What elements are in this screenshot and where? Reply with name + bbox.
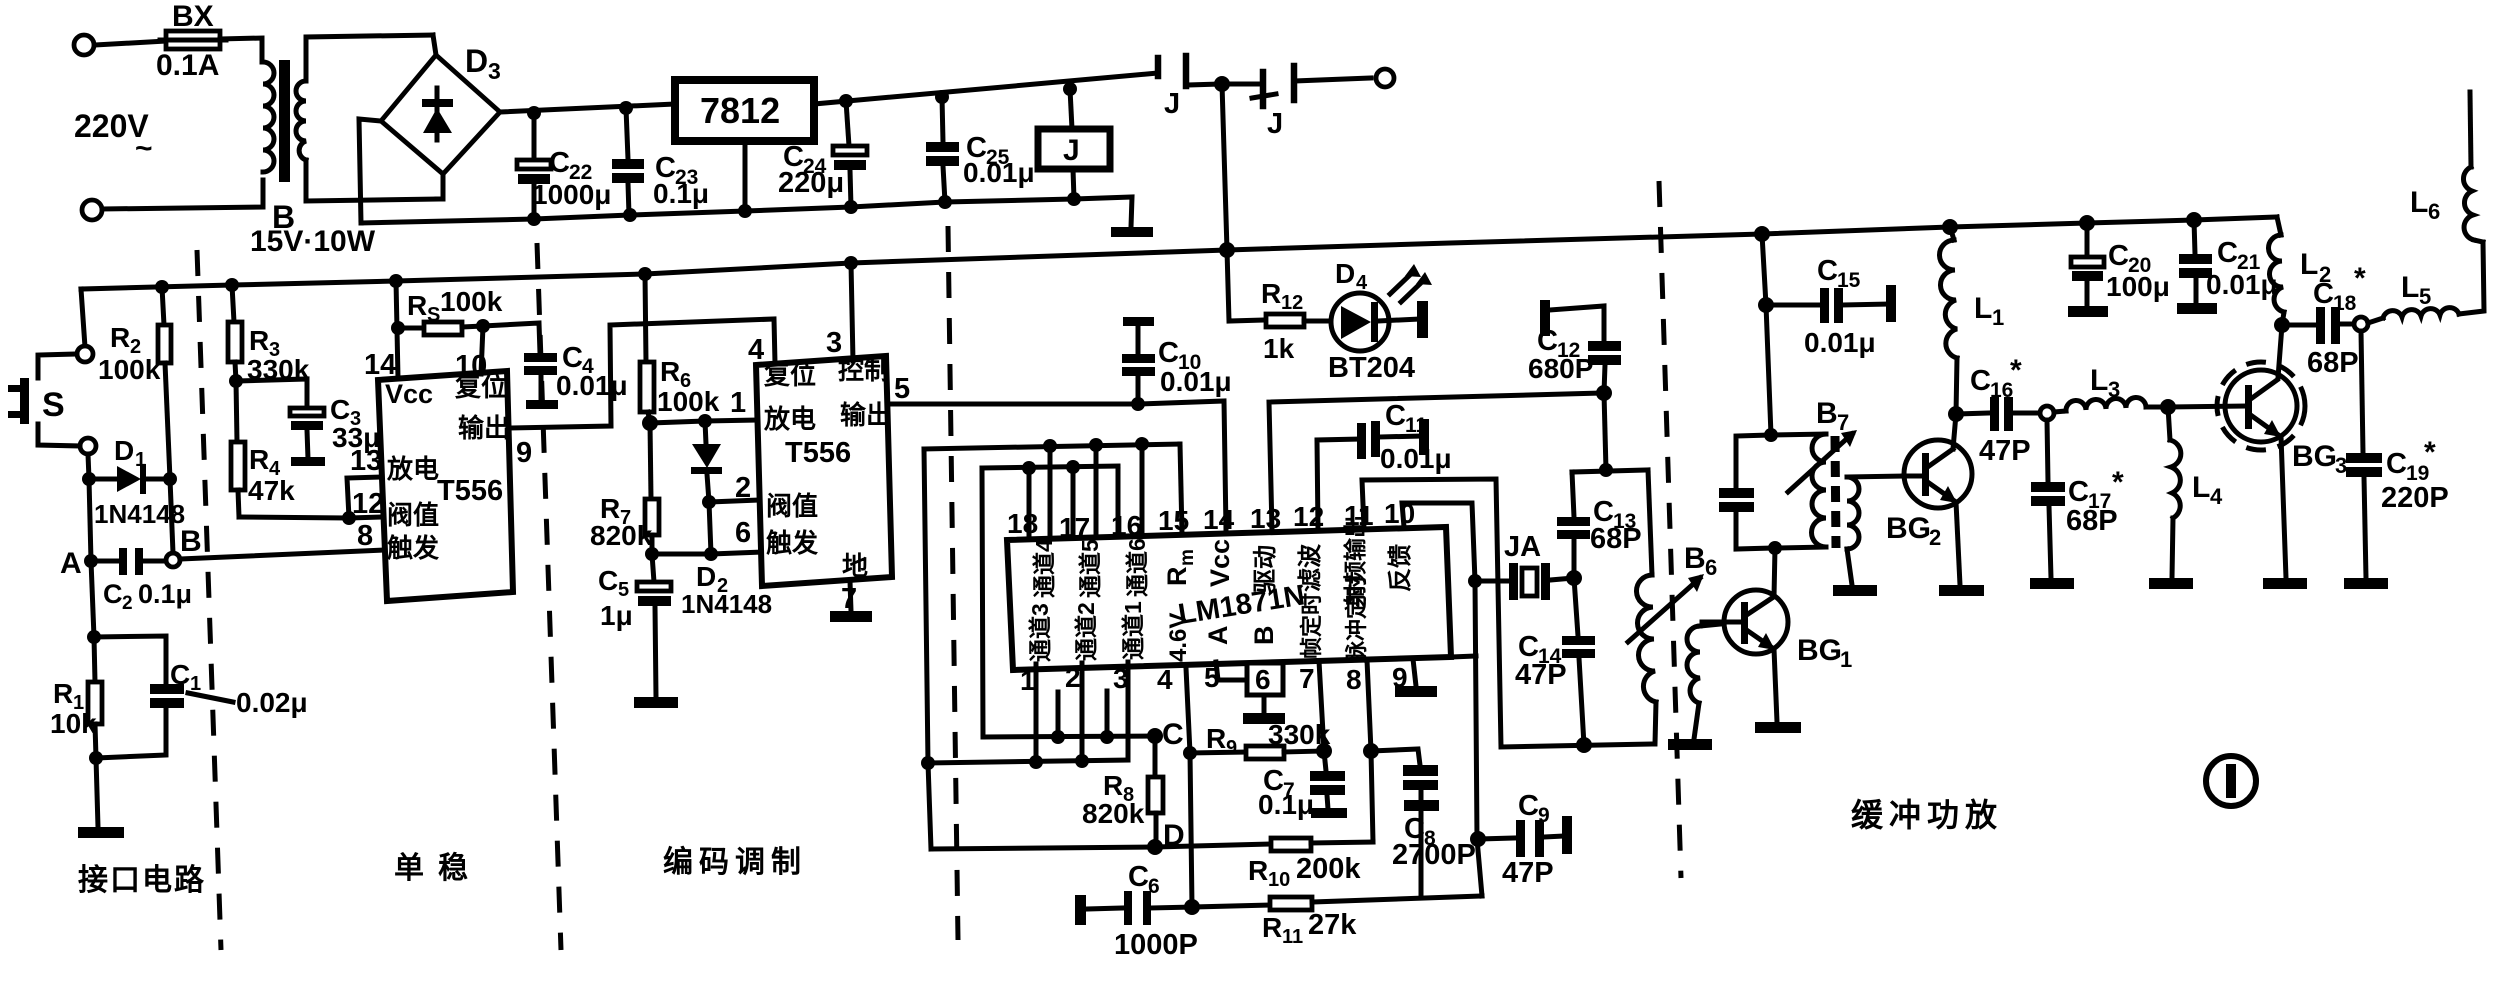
node B circle [166,553,180,567]
svg-text:3: 3 [2108,377,2120,402]
junction: L2/C18/BG3 [2274,317,2290,333]
svg-text:200k: 200k [1296,853,1361,885]
svg-text:1000P: 1000P [1114,929,1198,961]
svg-text:9: 9 [1226,737,1237,759]
capacitor C18 68P [2282,262,2366,379]
svg-text:反馈: 反馈 [1387,544,1414,592]
svg-text:9: 9 [1538,804,1550,827]
svg-text:R: R [249,444,269,475]
svg-text:14: 14 [1203,504,1235,535]
junction: R1/C1 top [87,630,101,644]
svg-text:1: 1 [1992,305,2004,330]
svg-text:5: 5 [2419,284,2431,309]
svg-text:T556: T556 [785,437,851,469]
svg-text:B: B [180,525,202,558]
crystal JA [1475,531,1574,600]
junction: D2 cathode / pin 2 [702,495,716,509]
svg-text:11: 11 [1282,926,1303,948]
pin 4 stub down [1186,668,1192,907]
transformer B core [279,60,290,182]
svg-text:C: C [1817,255,1838,287]
svg-text:T556: T556 [437,475,503,507]
capacitor C17 68P [2031,420,2124,578]
transformer B7 core [1835,436,1836,548]
svg-text:6: 6 [735,517,751,549]
svg-text:触发: 触发 [766,528,818,558]
junction: rail at C20 [2079,215,2095,231]
wire: switch node down to rail and R12 [1222,84,1266,321]
junction: switch node top [1214,76,1230,92]
wire: BG2 emitter to ground [1956,502,1960,585]
svg-text:单稳: 单稳 [394,852,482,885]
transformer B7 primary winding [1771,434,1826,548]
svg-text:Vcc: Vcc [1205,539,1235,587]
resistor R11 27k [1192,896,1482,948]
wire: chip bottom right corner extension [1451,656,1476,657]
wire: to threshold pin 2 [709,500,760,502]
transformer B7 secondary winding [1847,476,1903,585]
transistor BG3 [2217,362,2347,478]
junction at C24 [839,94,853,108]
wire: R4 bottom to T556 no.1 pins 12/13 [239,517,381,518]
svg-text:C: C [2108,240,2129,272]
wire: power section ground rail [361,197,1132,227]
junction: D1 cathode / R2 bottom [163,472,177,486]
svg-text:0.1μ: 0.1μ [138,579,192,609]
svg-text:D: D [1335,258,1355,289]
svg-text:C: C [598,565,618,596]
svg-text:2: 2 [122,593,133,614]
svg-text:B: B [1249,626,1279,646]
LED D4 BT204 [1328,258,1432,384]
regulator 7812 [675,80,814,211]
wire: node A down to R1 / C1 [91,561,94,637]
wire: junction to T556 no.2 discharge pin 1 [650,420,756,423]
ground: BG2 emitter [1939,585,1984,596]
wire: bridge right vertex DC plus to 7812 input [500,104,675,112]
wire: AC top to fuse [95,41,166,45]
svg-text:C: C [1970,365,1991,397]
svg-text:820k: 820k [1082,798,1145,829]
transformer B secondary winding [296,81,306,160]
svg-text:0.02μ: 0.02μ [236,687,308,718]
svg-text:L: L [1974,292,1992,325]
svg-text:2700P: 2700P [1392,839,1476,871]
junction: L3/L4/BG3 base [2160,399,2176,415]
ground: C17 [2030,578,2074,589]
ground: C5 [634,697,678,708]
svg-text:C: C [2068,476,2089,508]
svg-text:220P: 220P [2381,482,2449,514]
svg-text:0.01μ: 0.01μ [1804,327,1876,358]
svg-text:C: C [170,659,190,690]
wire: secondary bottom lead to bridge bottom [306,160,437,201]
svg-text:15: 15 [1158,505,1189,536]
wire: lower channel bus below chip [928,760,1128,763]
svg-text:R: R [110,322,130,353]
svg-text:47P: 47P [1502,857,1554,889]
channel pin stubs above chip [1027,468,1032,534]
capacitor C15 0.01μ [1766,255,1896,358]
svg-text:C: C [103,579,123,609]
svg-text:3: 3 [2335,453,2347,478]
capacitor C4 0.01μ [483,323,628,409]
junction: rail at B7 feed [1754,226,1770,242]
svg-text:R: R [1261,278,1281,309]
wire: rail left end down to switch S [81,289,85,347]
svg-text:2: 2 [1929,525,1941,550]
terminal: AC input top [74,35,94,55]
svg-text:3: 3 [488,58,501,84]
junction: pin12 wire [342,511,356,525]
capacitor C24 220μ [778,101,867,207]
diode D2 1N4148 [681,421,772,619]
wire: node column A down [89,479,91,561]
svg-text:阀值: 阀值 [387,500,439,530]
svg-text:通道2: 通道2 [1073,602,1099,661]
transistor BG2 [1886,440,1972,550]
svg-text:C: C [1128,861,1149,893]
junction: R1/C1 bottom [89,751,103,765]
svg-text:输出: 输出 [840,400,892,430]
svg-text:100μ: 100μ [2106,271,2170,302]
wire: node D line [931,844,1271,849]
wire: T556 no.1 output pin 9 to T556 no.2 reset pin 4 [511,319,775,428]
svg-text:阀值: 阀值 [766,491,818,521]
wire: output pin 5 of T556 no.2 to LM1871 Vcc [890,401,1226,530]
dashed separator line 3 [948,226,958,940]
wire: feedback column pin 10 [1402,503,1482,896]
svg-text:S: S [42,386,65,424]
svg-text:1000μ: 1000μ [532,179,611,210]
svg-text:地: 地 [842,551,868,581]
svg-text:BG: BG [1797,634,1842,667]
resistor R10 200k [1248,838,1373,891]
svg-text:复位: 复位 [764,360,816,390]
capacitor C25 0.01μ [926,97,1035,202]
wire: R2 bottom to node B [170,479,173,553]
junction: R9 left [1183,746,1197,760]
junction: R7/C5/pin6 [645,547,659,561]
svg-text:11: 11 [1344,500,1374,531]
wire: driver pin 13 to C12 node [1269,393,1604,530]
capacitor C13 68P [1557,472,1642,578]
svg-text:放电: 放电 [763,404,816,434]
junction: C14 bottom [1576,737,1592,753]
svg-text:D: D [696,561,716,592]
pin 3 stub T556 no.2 [851,263,853,361]
ground: L4 [2149,578,2193,589]
capacitor C10 0.01μ [1122,317,1232,404]
junction: C12/driver [1596,385,1612,401]
svg-text:14: 14 [364,349,396,381]
junction on DC plus at C22 [527,106,541,120]
svg-text:680P: 680P [1528,353,1593,384]
svg-text:R: R [660,356,680,387]
transformer B6 left winding [1636,470,1656,744]
dashed separator line 1 [197,250,221,950]
dashed separator line 2 [537,243,561,950]
svg-text:7: 7 [1299,663,1315,694]
capacitor C14 47P [1515,578,1595,745]
wire: AC bottom to transformer primary bottom [102,180,263,209]
svg-text:~: ~ [135,132,153,165]
inductor L4 [2168,407,2223,578]
terminal: output circle top right [1376,69,1394,87]
junction: rail at C21 [2186,212,2202,228]
wire: BG3 emitter to ground [2281,436,2286,578]
junction: D2 anode [698,414,712,428]
svg-text:0.01μ: 0.01μ [2206,269,2278,300]
junction: R5 right / pin 10 [476,319,490,333]
svg-text:3: 3 [826,327,842,359]
channel pin stubs below chip [1034,664,1039,762]
svg-text:7: 7 [841,583,857,615]
arrow: B6 tuning [1628,574,1704,642]
capacitor C8 2700P [1371,749,1476,896]
pin 7 stub down [1319,661,1324,751]
dashed separator line 4 [1659,181,1681,878]
capacitor C7 0.1μ [1258,751,1347,820]
wire: trigger pin 6 wire [652,552,762,554]
svg-text:L: L [2300,248,2318,281]
svg-text:通道5: 通道5 [1077,539,1103,598]
svg-text:11: 11 [1405,414,1428,437]
svg-text:6: 6 [1255,664,1271,695]
wire: RF output pin 11 to B6 [1362,479,1653,747]
svg-text:BG: BG [2292,440,2337,473]
junction at relay J coil [1063,82,1077,96]
svg-text:18: 18 [1007,508,1038,539]
svg-text:15V·10W: 15V·10W [250,225,376,258]
svg-text:*: * [2424,436,2436,469]
svg-text:4: 4 [748,334,764,366]
svg-text:1k: 1k [1263,333,1295,364]
svg-text:0.1μ: 0.1μ [653,178,709,209]
svg-text:2: 2 [1065,662,1081,693]
svg-text:*: * [2010,354,2022,387]
svg-text:m: m [1177,549,1198,566]
svg-text:R: R [1262,912,1282,943]
junction: rail at R3 [225,278,239,292]
capacitor C2 0.1μ [91,548,192,614]
svg-text:13: 13 [1250,503,1281,534]
wire: BG2 collector up to C16 node [1953,414,1956,449]
svg-text:9: 9 [516,437,532,469]
svg-text:1μ: 1μ [600,600,633,631]
junction: R6/R7/D2/pin1 [642,415,658,431]
capacitor C16 47P [1956,354,2040,467]
svg-text:BX: BX [172,0,214,33]
svg-text:15: 15 [1837,269,1861,292]
svg-text:通道4: 通道4 [1031,539,1057,598]
arrow: B7 tuning [1788,430,1857,492]
inductor L6 [2410,92,2483,242]
svg-text:10: 10 [455,350,487,382]
svg-text:0.1μ: 0.1μ [1258,789,1314,820]
relay coil J [1038,89,1110,199]
svg-text:10: 10 [1268,869,1290,891]
svg-text:4: 4 [2210,484,2223,509]
junction: pin8/C8 [1363,743,1379,759]
svg-text:D: D [114,435,134,466]
svg-text:*: * [2112,466,2124,499]
svg-text:27k: 27k [1308,909,1357,941]
wire: BG3 collector up to L2 node [2278,325,2282,378]
ground: C19 [2344,578,2388,589]
svg-text:47P: 47P [1979,435,2031,467]
svg-text:6: 6 [1705,555,1717,580]
junction: pin14/R5 [391,321,405,335]
svg-text:1N4148: 1N4148 [681,589,772,619]
junction: C9 tap [1470,831,1486,847]
ground: B7 secondary [1833,585,1877,596]
junction: rail at switch J / R12 [1219,242,1235,258]
diode D1 1N4148 [89,435,185,529]
svg-text:J: J [1063,134,1080,167]
svg-text:C: C [2386,448,2407,480]
capacitor C23 0.1μ [612,108,709,215]
junction: C10 on pin5 wire [1131,397,1145,411]
svg-text:12: 12 [352,488,384,520]
wire: node C line [983,736,1155,737]
svg-text:C: C [1162,718,1184,751]
svg-text:6: 6 [1148,875,1160,898]
svg-text:1: 1 [135,449,146,471]
ground: B6 right winding [1668,739,1712,750]
svg-text:8: 8 [1346,664,1362,695]
inductor L3 [2054,364,2168,412]
inductor L5 [2368,242,2484,323]
svg-text:BG: BG [1886,512,1931,545]
svg-text:6: 6 [2428,199,2440,224]
terminal: AC input bottom [82,200,102,220]
svg-text:18: 18 [2333,292,2357,315]
capacitor C9 47P [1478,790,1572,889]
svg-text:8: 8 [357,520,373,552]
svg-text:820k: 820k [590,520,653,551]
junction: JA node on feedback column [1468,574,1482,588]
wire: B7 secondary to BG2 base [1903,474,1922,479]
junction: rail at R6 [638,267,652,281]
wire: filter pin 12 to C11 [1317,439,1359,529]
relay contact J upper [1158,56,1222,120]
resistor R3 330k [228,285,310,385]
junction: rail at L1 [1942,219,1958,235]
resistor R7 820k [590,423,659,554]
wire: bridge top vertex stem [433,35,436,55]
wire: rail feed down to B7 tank [1762,234,1771,435]
inductor L2 [2269,217,2332,325]
circled number 1 [2206,756,2256,806]
svg-text:L: L [2192,471,2210,504]
svg-text:L: L [2401,271,2419,304]
svg-text:5: 5 [894,373,910,405]
transformer B 15V·10W primary winding [263,62,274,172]
node: C18/L5/C19 open circle [2354,317,2368,331]
wire: fuse to transformer primary top [220,38,262,62]
junction: R3/R4/C3 [229,374,243,388]
transistor BG1 [1724,548,1852,722]
svg-text:缓冲功放: 缓冲功放 [1851,797,2003,833]
svg-text:100k: 100k [657,386,720,417]
svg-text:5: 5 [618,579,629,601]
capacitor C3 33μ [236,379,380,466]
svg-text:BT204: BT204 [1328,352,1415,384]
svg-text:通道3: 通道3 [1027,603,1053,662]
junction: rail at T556 no.1 pin 14 [389,274,403,288]
svg-text:通道6: 通道6 [1124,538,1150,597]
svg-text:R: R [1162,567,1192,587]
svg-text:7: 7 [1837,410,1849,435]
svg-text:A: A [1203,626,1233,646]
svg-text:1: 1 [1020,665,1036,696]
junction: L1/BG2/C16 [1948,406,1964,422]
svg-text:10k: 10k [50,708,97,739]
svg-text:2: 2 [735,472,751,504]
resistor R9 330k [1190,719,1331,759]
pin 10 stub T556 no.1 [481,326,483,374]
junction dots on ground rail [527,212,541,226]
transformer B7 tank capacitor [1719,435,1775,549]
svg-text:R: R [1248,855,1268,886]
capacitor C22 1000μ [517,113,611,219]
svg-text:R: R [1206,723,1226,754]
svg-text:脉冲定时: 脉冲定时 [1344,575,1369,664]
ground: pin 6 [1243,713,1285,724]
wire: channel bus upper [924,444,1180,449]
svg-text:220μ: 220μ [778,167,844,199]
svg-text:J: J [1267,108,1283,140]
svg-text:触发: 触发 [387,533,439,563]
junction: C6/R11/pin4 [1184,899,1200,915]
IC T556 no.1 [378,371,513,601]
svg-text:47k: 47k [248,475,295,506]
wire: switch S bottom to node A column [88,454,89,479]
svg-text:J: J [1164,88,1180,120]
svg-text:A: A [60,547,82,580]
ground: interface circuit [78,827,124,838]
svg-text:C: C [1385,400,1406,432]
IC LM1871N body [1007,515,1451,670]
junction: rail at T556 no.2 pin 3 [844,256,858,270]
node A [84,554,98,568]
junction: B7 tank top [1764,428,1778,442]
resistor R4 47k [231,381,295,517]
junction: R9/C7/pin7 [1316,743,1332,759]
svg-text:放电: 放电 [386,454,439,484]
wire: D2 cathode down to pin 6 wire [709,502,711,554]
svg-text:C: C [2217,237,2238,269]
wire: to interface ground [96,758,98,827]
svg-text:C: C [2313,278,2334,310]
svg-text:1: 1 [1840,647,1852,672]
svg-text:D: D [465,43,488,79]
svg-text:B: B [1684,542,1706,575]
svg-text:7812: 7812 [700,90,780,131]
pin 7 ground stub [850,581,851,611]
push switch S [8,346,96,454]
wire: main Vcc rail [81,217,2277,289]
svg-text:C: C [549,147,570,179]
capacitor C21 0.01μ [2179,220,2278,303]
resistor R5 100k [398,286,503,335]
svg-text:13: 13 [350,445,382,477]
junction at C25 [935,90,949,104]
wire: pin 13 jumper to pin 12 [347,477,381,518]
capacitor C11 0.01μ [1357,400,1452,474]
svg-text:R: R [53,678,73,709]
